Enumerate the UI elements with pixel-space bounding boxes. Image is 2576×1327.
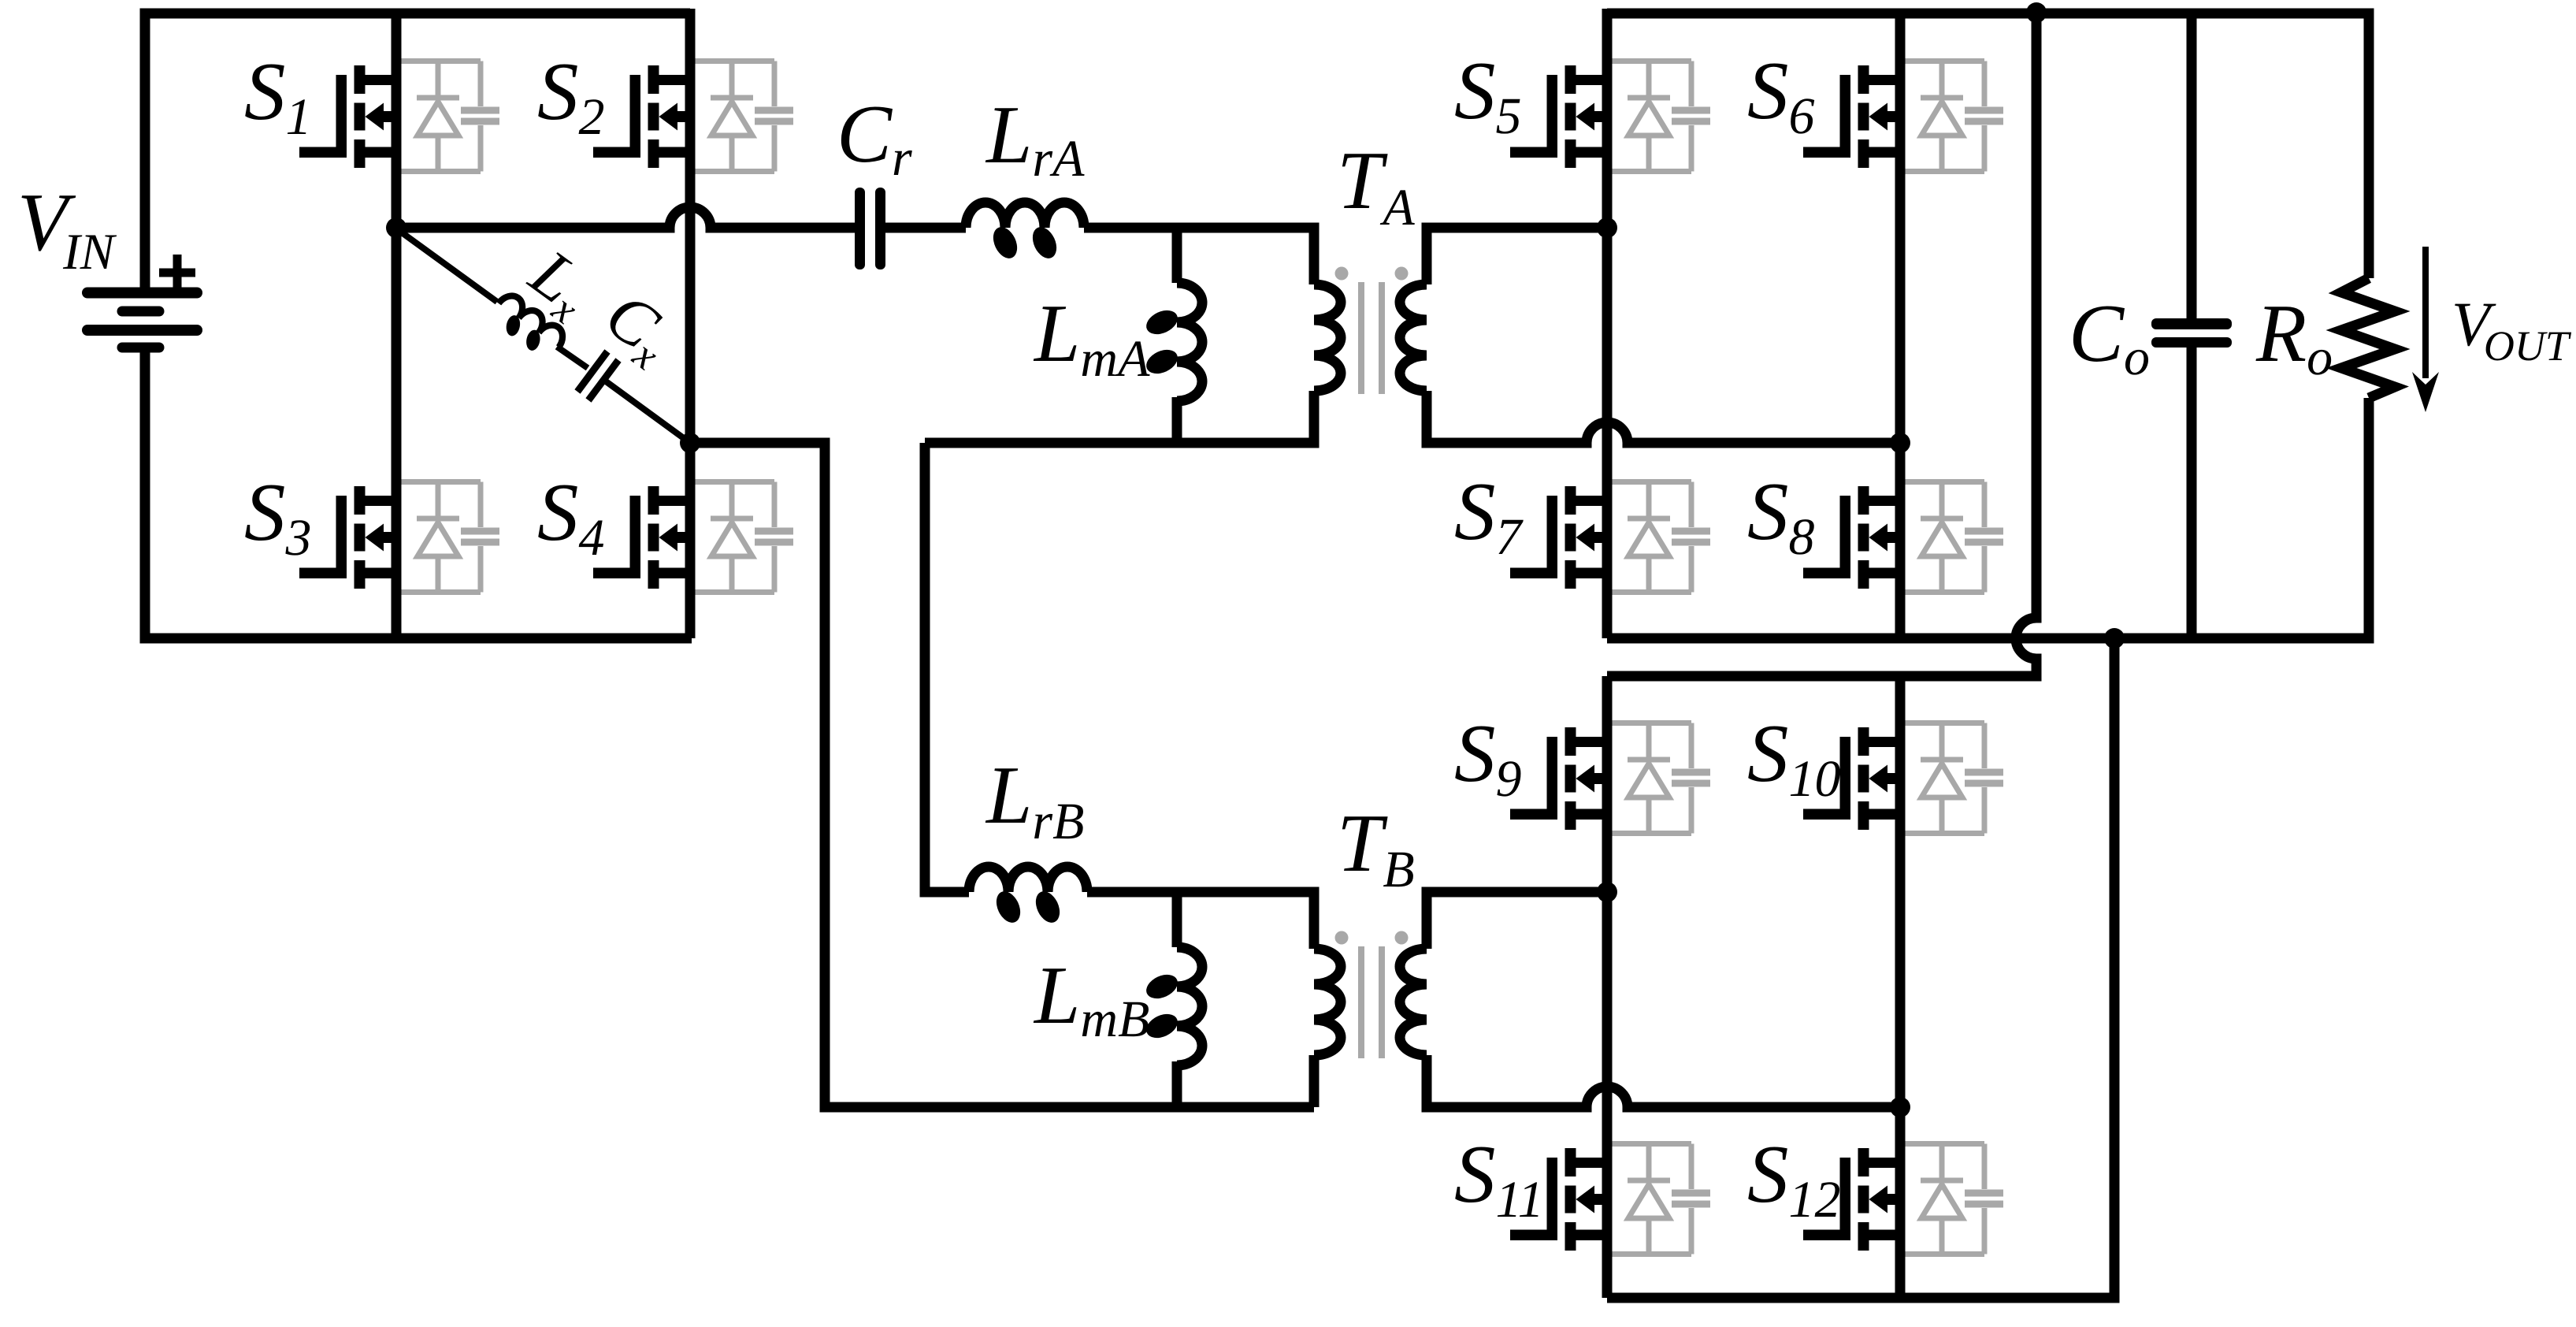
wire Lx to Cx xyxy=(557,347,588,368)
body diode and output capacitor of S8 xyxy=(1905,482,2003,593)
wire LrA to TA primary xyxy=(1084,228,1314,284)
wire output negative down to lower bridge bottom rail xyxy=(1607,638,2114,1298)
wire TA secondary bottom to S6 S8 midpoint with hop xyxy=(1427,391,1900,443)
wire leg S5 S7 xyxy=(1602,9,1613,638)
node bridge A midpoint xyxy=(386,217,406,238)
wire Cx to S2 S4 midpoint xyxy=(603,379,690,443)
node S2 S4 midpoint xyxy=(680,433,700,453)
node S5 S7 midpoint xyxy=(1597,217,1617,238)
wire bottom rail of rectifier bridge to Ro xyxy=(1607,398,2369,638)
transistor S12 xyxy=(1803,1148,1900,1251)
node output positive rail tee xyxy=(2026,2,2047,23)
body diode and output capacitor of S9 xyxy=(1612,723,1710,834)
resistor Ro xyxy=(2341,278,2395,398)
transistor S1 xyxy=(299,65,396,168)
wire Co branch xyxy=(2187,13,2197,638)
node S9 S11 midpoint xyxy=(1597,882,1617,902)
transformer TB secondary winding xyxy=(1400,949,1427,1055)
transistor S6 xyxy=(1803,65,1900,168)
transistor S3 xyxy=(299,486,396,589)
wire TA primary bottom rail xyxy=(925,391,1314,443)
node S10 S12 midpoint xyxy=(1890,1097,1910,1117)
wire LmA stems xyxy=(1172,228,1182,443)
wire TB secondary bottom to S10 S12 midpoint with hop xyxy=(1427,1055,1900,1107)
wire TA secondary top to S5 S7 midpoint xyxy=(1427,228,1607,284)
inductor LrA xyxy=(966,203,1084,262)
inductor LrB xyxy=(969,867,1087,927)
body diode and output capacitor of S12 xyxy=(1905,1144,2003,1255)
battery plus sign xyxy=(159,255,195,291)
body diode and output capacitor of S11 xyxy=(1612,1144,1710,1255)
battery VIN xyxy=(87,293,197,348)
wire TA loop to LrB xyxy=(925,443,969,892)
transistor S10 xyxy=(1803,727,1900,830)
body diode and output capacitor of S6 xyxy=(1905,61,2003,172)
body diode and output capacitor of S1 xyxy=(401,61,499,172)
arrow VOUT xyxy=(2412,247,2439,412)
body diode and output capacitor of S3 xyxy=(401,482,499,593)
wire Cr to LrA xyxy=(885,223,966,233)
body diode and output capacitor of S7 xyxy=(1612,482,1710,593)
transistor S2 xyxy=(593,65,690,168)
inductor LmB xyxy=(1142,947,1202,1065)
transistor S9 xyxy=(1510,727,1607,830)
wire leg S9 S11 xyxy=(1602,676,1613,1298)
body diode and output capacitor of S4 xyxy=(695,482,793,593)
capacitor Cr plates xyxy=(855,188,885,269)
body diode and output capacitor of S2 xyxy=(695,61,793,172)
capacitor Cx plates xyxy=(577,351,607,392)
transistor S11 xyxy=(1510,1148,1607,1251)
body diode and output capacitor of S10 xyxy=(1905,723,2003,834)
transformer TA secondary winding xyxy=(1400,284,1427,391)
transformer TA core xyxy=(1361,282,1382,394)
wire LmB stems xyxy=(1172,892,1182,1107)
wire S2 S4 midpoint down to TB loop xyxy=(690,443,1314,1107)
transformer TB primary winding xyxy=(1314,949,1341,1055)
wire bridge A midpoint to Cr with hop over S2 leg xyxy=(396,207,855,228)
wire leg S2 S4 xyxy=(685,9,696,638)
wire LrB to TB primary xyxy=(1087,892,1314,949)
capacitor Co plates xyxy=(2151,318,2232,348)
wire top rail of input bridge xyxy=(145,13,690,292)
wire leg S10 S12 xyxy=(1895,676,1906,1298)
inductor LmA xyxy=(1142,283,1202,401)
transformer TB polarity dots xyxy=(1335,931,1409,945)
wire TB primary bottom stem xyxy=(1309,1055,1320,1107)
node output negative rail tee xyxy=(2104,628,2125,649)
body diode and output capacitor of S5 xyxy=(1612,61,1710,172)
wire output positive down to lower bridge with hop xyxy=(1607,13,2036,676)
wire top rail of rectifier bridge to Ro xyxy=(1607,13,2369,278)
wire leg S6 S8 xyxy=(1895,9,1906,638)
transistor S7 xyxy=(1510,486,1607,589)
transformer TA polarity dots xyxy=(1335,267,1409,281)
inductor Lx xyxy=(486,291,568,365)
wire leg S1 S3 xyxy=(392,9,402,638)
wire diagonal from bridge A midpoint to Lx xyxy=(396,229,497,302)
transformer TA primary winding xyxy=(1314,284,1341,391)
wire TB secondary top to S9 S11 midpoint xyxy=(1427,892,1607,949)
transformer TB core xyxy=(1361,946,1382,1058)
transistor S8 xyxy=(1803,486,1900,589)
node S6 S8 midpoint xyxy=(1890,433,1910,453)
wire left battery return xyxy=(145,348,692,638)
transistor S5 xyxy=(1510,65,1607,168)
transistor S4 xyxy=(593,486,690,589)
